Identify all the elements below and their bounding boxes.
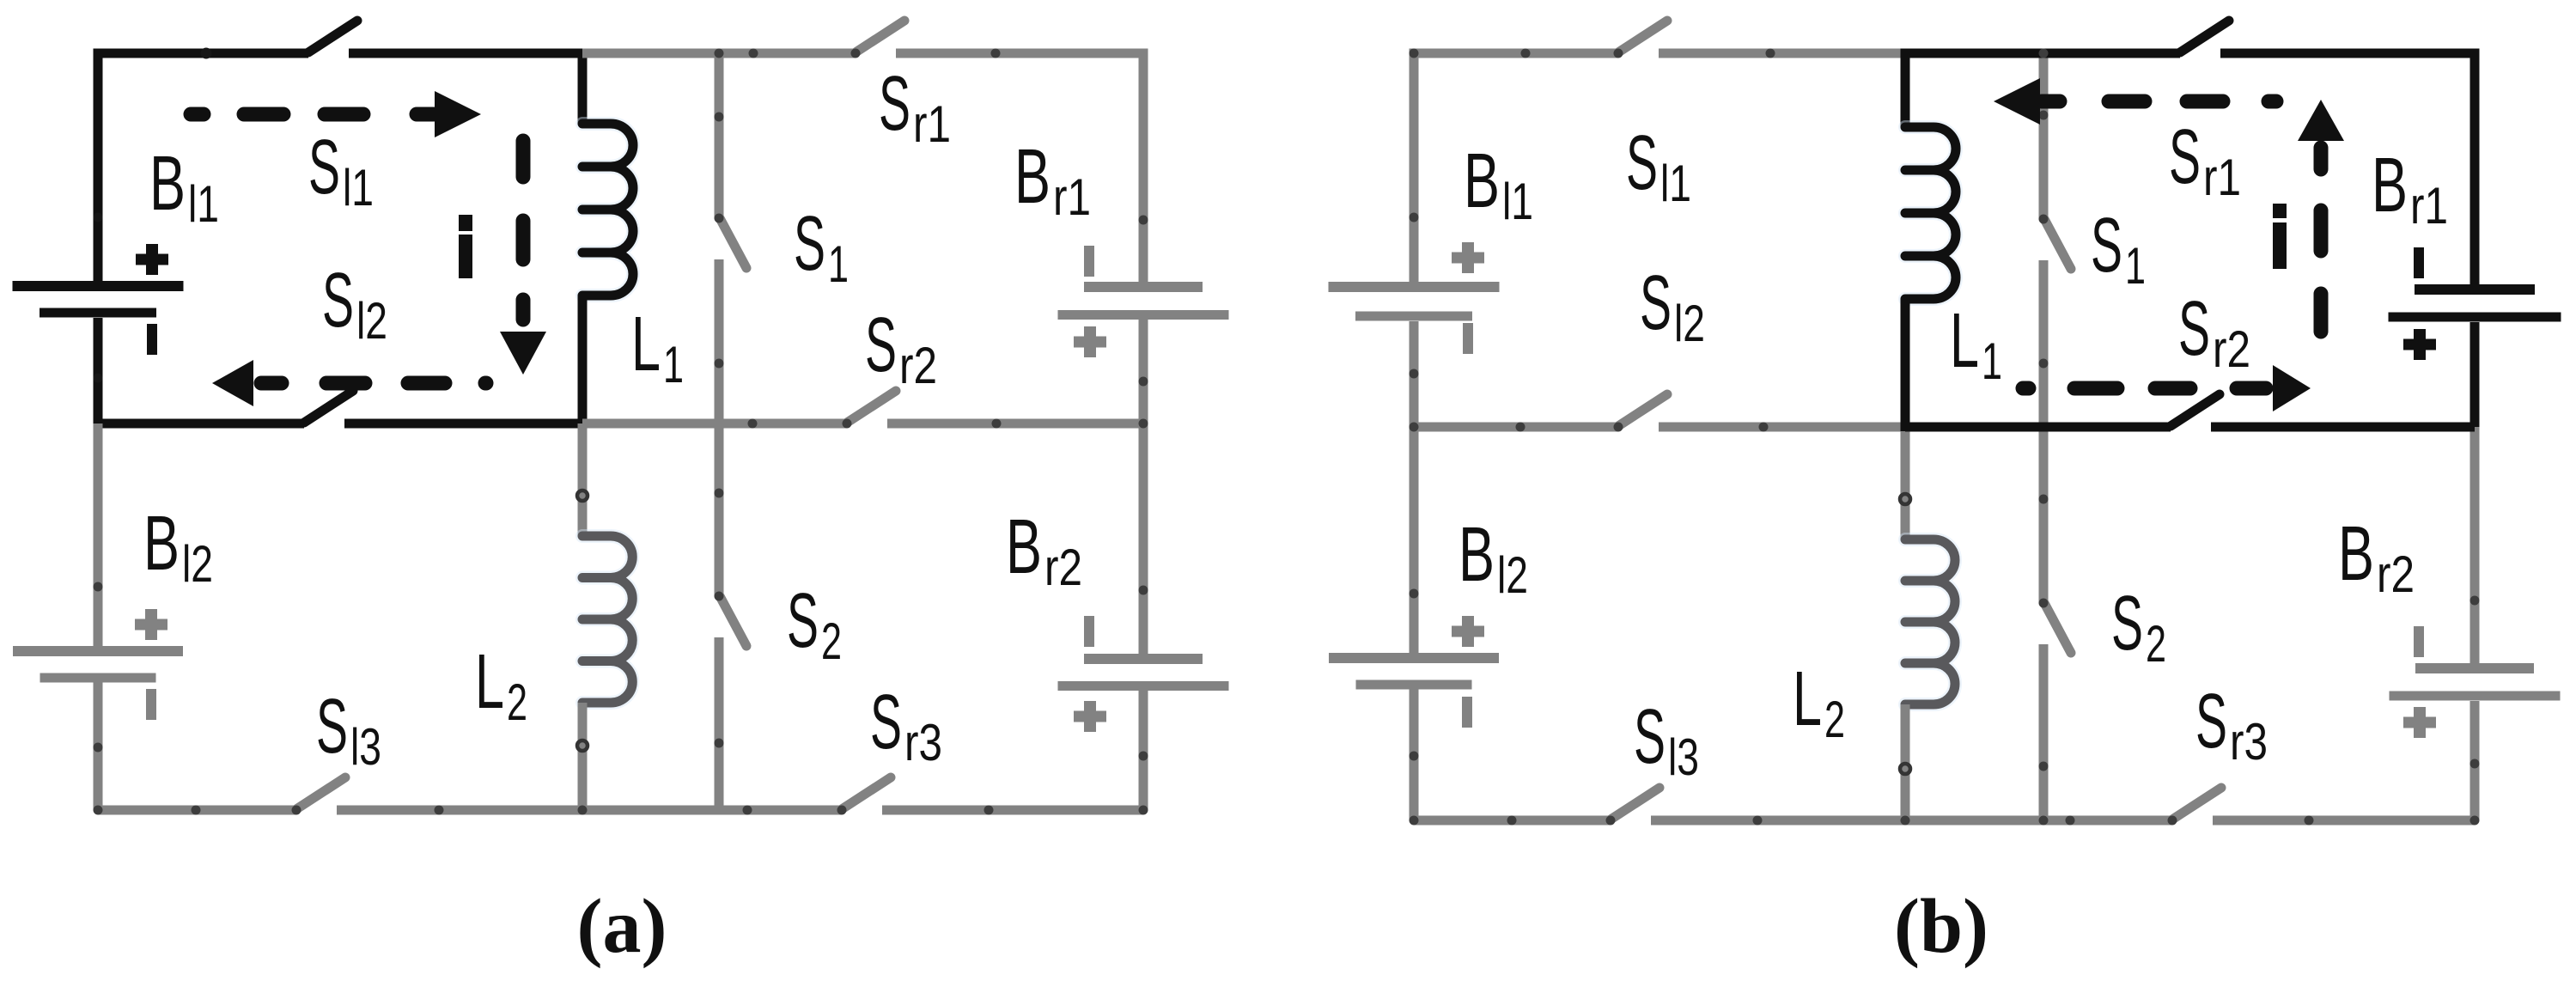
svg-text:l3: l3 (1668, 728, 1699, 786)
wire bottom rail left to S_l3 (gray) (1414, 816, 1611, 826)
node junction (2688,955) (2305, 816, 2314, 826)
svg-text:S: S (1634, 694, 1666, 780)
label S_r1 (879, 61, 951, 153)
node junction (870,943) (743, 806, 752, 815)
wire S2 column lower (gray) (715, 637, 724, 810)
wire bottom rail left to S_l3 (gray) (98, 806, 296, 815)
svg-text:l2: l2 (1497, 546, 1528, 604)
svg-text:r2: r2 (2377, 545, 2415, 603)
node junction (678,943) (578, 806, 588, 815)
node junction (1160,493) (992, 419, 1002, 429)
battery B_r2 (1058, 616, 1229, 732)
switch S_l1 (blade, gray) (1614, 21, 1668, 58)
node junction (2046,955) (1753, 816, 1763, 826)
pin marker L2 bottom (b) (1900, 764, 1910, 774)
node junction (1159,62) (991, 49, 1001, 58)
wire S1 column lower (gray) (715, 259, 724, 423)
svg-text:l1: l1 (343, 159, 374, 216)
node junction (1646,880) (1410, 752, 1419, 761)
label current i (b) (2273, 204, 2287, 269)
current dash top dot (191, 107, 204, 122)
node junction (877,62) (749, 49, 758, 58)
svg-text:1: 1 (2125, 237, 2146, 295)
node junction (1646,497) (1410, 423, 1419, 432)
svg-text:r3: r3 (2230, 713, 2268, 771)
wire mid rail L1 to S_r2 (gray) (582, 419, 847, 429)
svg-text:S: S (870, 679, 902, 765)
wire bottom rail S_r3 to B_r2 (gray) (2213, 816, 2475, 826)
current dash right 2 (2314, 294, 2329, 332)
wire S_l2 to L1 column (gray) (1659, 423, 1905, 432)
svg-text:(b): (b) (1894, 884, 1988, 969)
current dash bottom 2 (326, 376, 365, 391)
svg-text:r1: r1 (1053, 168, 1091, 226)
svg-text:S: S (2111, 581, 2143, 667)
current arrow left (bottom) (212, 360, 282, 406)
wire L2 column upper (gray) (1901, 427, 1910, 539)
wire bottom rail S_l3 to S_r3 (gray) (1651, 816, 2172, 826)
node junction (2218,955) (1901, 816, 1910, 826)
current dash bottom 2 (2155, 381, 2190, 396)
node junction (2379,134) (2039, 111, 2049, 120)
label S_l2 (b) (1640, 260, 1705, 352)
node junction (876,493) (748, 419, 758, 429)
wire B_r2 column upper (gray) (2470, 427, 2480, 663)
pin marker L2 top (577, 490, 588, 501)
label S_r3 (870, 679, 942, 771)
switch S_l1 (closed-drawn blade, black) (308, 21, 357, 52)
current dash bottom 1 (408, 376, 445, 391)
label L_2 (475, 639, 527, 731)
svg-text:2: 2 (821, 612, 842, 670)
node junction (1151,943) (984, 806, 994, 815)
label S_r2 (b) (2178, 286, 2250, 378)
svg-text:r2: r2 (899, 337, 937, 394)
node junction (1646,691) (1410, 589, 1419, 599)
label S_l1 (308, 125, 374, 216)
switch S_l2 (blade, black) (304, 391, 353, 423)
svg-text:L: L (1950, 298, 1979, 384)
svg-text:r2: r2 (2213, 320, 2250, 378)
label S_1 (794, 201, 849, 293)
node junction (837,865) (715, 739, 724, 748)
svg-text:S: S (2169, 114, 2201, 200)
svg-text:l1: l1 (1660, 155, 1691, 212)
battery B_l2 (13, 609, 183, 720)
node junction (1646,253) (1410, 213, 1419, 222)
wire mid rail S_r2 to L1 (black) (1905, 423, 2171, 432)
svg-text:B: B (2372, 143, 2408, 228)
battery B_r1 (b) (2389, 247, 2561, 360)
svg-text:S: S (879, 61, 910, 147)
svg-text:l2: l2 (182, 535, 213, 593)
current arrow up (right) (2298, 100, 2344, 169)
wire bottom rail S_l3 to S_r3 (gray) (337, 806, 842, 815)
wire L2 column upper (gray) (578, 423, 588, 536)
label B_r1 (1014, 134, 1091, 226)
current dash top 2 (2187, 94, 2223, 109)
label B_r2 (1006, 504, 1082, 596)
wire top rail L1 to S_r1 (gray) (582, 49, 856, 58)
svg-text:2: 2 (2146, 615, 2166, 673)
inductor L2 (582, 536, 632, 703)
node junction (1646,955) (1410, 816, 1419, 826)
svg-text:S: S (1626, 120, 1658, 206)
switch S_r1 (blade, black) (2180, 21, 2229, 52)
svg-text:B: B (1464, 138, 1500, 224)
label S_2 (787, 578, 842, 670)
node junction (511,943) (435, 806, 444, 815)
current dash top dot (2268, 94, 2276, 109)
svg-text:B: B (149, 141, 186, 227)
node junction (1776,62) (1521, 49, 1531, 58)
label S_l3 (316, 684, 381, 776)
battery B_r2 (b) (2390, 626, 2561, 738)
label S_l3 (b) (1634, 694, 1699, 786)
wire B_l1 to mid rail (gray) (1410, 321, 1419, 427)
inductor L1 (b) (1905, 127, 1956, 299)
svg-text:1: 1 (663, 336, 684, 393)
wire S1 column lower (gray) (2039, 260, 2049, 427)
node junction (240,62) (201, 48, 212, 59)
label S_r2 (865, 302, 937, 394)
node junction (1770,497) (1516, 423, 1526, 432)
svg-text:S: S (2178, 286, 2210, 372)
battery B_l2 (b) (1329, 616, 1499, 728)
svg-text:r3: r3 (904, 714, 942, 771)
label B_l1 (149, 141, 219, 233)
svg-text:S: S (2195, 679, 2227, 765)
node junction (1646,435) (1410, 369, 1419, 379)
wire left column B_l2 lower (gray) (1410, 689, 1419, 820)
switch S_r3 (blade, gray) (2168, 788, 2222, 826)
label L_1 (b) (1950, 298, 2002, 390)
svg-text:S: S (794, 201, 825, 287)
node junction (2379,423) (2039, 359, 2049, 369)
svg-text:B: B (143, 501, 180, 587)
svg-text:B: B (1006, 504, 1042, 590)
current arrow down (right) (500, 300, 546, 375)
wire L2 column lower (gray) (1901, 704, 1910, 820)
svg-text:2: 2 (507, 673, 527, 731)
wire B_r2 column lower (gray) (1139, 691, 1148, 810)
node junction (837,423) (715, 359, 724, 369)
svg-text:B: B (1459, 512, 1495, 598)
current arrow right (bottom) (2237, 365, 2311, 411)
wire mid rail left to S_l2 (gray) (1414, 423, 1618, 432)
label L_1 (631, 302, 684, 393)
label B_l2 (b) (1459, 512, 1528, 604)
label B_r1 (b) (2372, 143, 2448, 235)
wire mid rail B_r1 to S_r2 (black) (2211, 423, 2475, 432)
wire top-left B_l1 to S_l1 (gray) (1414, 53, 1618, 282)
svg-text:r1: r1 (913, 95, 951, 153)
node junction (2379,62) (2039, 49, 2049, 58)
node junction (114,253) (94, 213, 103, 222)
label B_r2 (b) (2338, 511, 2415, 603)
svg-text:S: S (316, 684, 348, 770)
node junction (1331,444) (1139, 377, 1148, 387)
wire L1 bottom lead (black) (578, 296, 588, 428)
svg-text:L: L (631, 302, 661, 387)
wire B_r1 to mid rail (black) (2470, 322, 2480, 427)
svg-text:l2: l2 (1674, 295, 1705, 352)
svg-text:S: S (2091, 203, 2122, 289)
current arrow left (top) (1994, 78, 2060, 125)
svg-text:(a): (a) (577, 884, 667, 969)
battery B_l1 (b) (1329, 242, 1500, 354)
wire B_r1 + to mid rail (gray) (1139, 320, 1148, 423)
node junction (2379,581) (2039, 495, 2049, 504)
wire L2 column lower (gray) (578, 703, 588, 810)
wire B_l1 - to mid rail (black) (98, 318, 304, 423)
label S_l1 (b) (1626, 120, 1691, 212)
svg-text:2: 2 (1824, 691, 1845, 748)
switch S_r2 (blade, gray) (843, 391, 897, 429)
node junction (2379,892) (2039, 762, 2049, 771)
wire B_r2 column lower (gray) (2470, 701, 2480, 820)
current dash bottom dot (2023, 381, 2029, 396)
wire left column B_l2 lower (gray) (94, 682, 103, 810)
svg-text:S: S (865, 302, 897, 388)
svg-text:B: B (1014, 134, 1050, 220)
svg-text:B: B (2338, 511, 2374, 597)
switch S2 (blade, gray) (2039, 599, 2072, 654)
svg-text:S: S (1640, 260, 1672, 346)
node junction (1760,955) (1507, 816, 1517, 826)
wire S2 column upper (gray) (2039, 427, 2049, 603)
node junction (114,440) (94, 374, 103, 383)
svg-text:r1: r1 (2410, 177, 2448, 235)
label B_l1 (b) (1464, 138, 1533, 230)
node junction (837,62) (715, 49, 724, 58)
switch S1 (blade, gray) (2039, 215, 2072, 270)
switch S2 (blade, gray) (715, 592, 747, 647)
node junction (1331,880) (1139, 752, 1148, 761)
current dash top 1 (2109, 94, 2145, 109)
label S_r3 (b) (2195, 679, 2268, 771)
wire top rail S_r1 to B_r1 (gray) (896, 53, 1143, 282)
current dash right 2 (516, 221, 531, 259)
current arrow right (top) (417, 91, 481, 137)
wire S2 column upper (gray) (715, 423, 724, 596)
node junction (114,870) (94, 743, 103, 753)
node junction (837,136) (715, 113, 724, 122)
svg-text:1: 1 (1982, 332, 2002, 390)
svg-text:r2: r2 (1044, 539, 1082, 596)
svg-text:S: S (322, 258, 354, 344)
node junction (114,943) (94, 806, 103, 815)
current dash bottom 1 (2074, 381, 2117, 396)
wire L1 bottom lead (black) (1901, 299, 1910, 431)
current dash top 2 (325, 107, 363, 122)
pin marker L2 top (b) (1900, 494, 1910, 504)
current dash top 1 (244, 107, 283, 122)
label L_2 (b) (1793, 656, 1845, 748)
wire left column B_l2 upper (gray) (1410, 427, 1419, 653)
node junction (2881,955) (2470, 816, 2480, 826)
node junction (1331,943) (1139, 806, 1148, 815)
svg-text:L: L (475, 639, 504, 725)
node junction (2410,955) (2066, 816, 2075, 826)
node junction (2881,699) (2470, 596, 2480, 606)
switch S1 (blade, gray) (715, 214, 747, 269)
svg-text:r1: r1 (2203, 149, 2241, 206)
battery B_r1 (1058, 246, 1229, 357)
wire S2 column lower (gray) (2039, 644, 2049, 820)
wire S1 column upper (gray) (715, 53, 724, 218)
switch S_r3 (blade, gray) (837, 777, 892, 815)
wire S1 column upper (gray) (2039, 53, 2049, 219)
switch S_l2 (blade, gray) (1614, 394, 1668, 432)
current dash right 1 (2314, 210, 2329, 251)
wire left column B_l2 upper (gray) (94, 423, 103, 646)
current dash right 1 (516, 141, 531, 177)
node junction (2379,955) (2039, 816, 2049, 826)
wire top-left: B_l1 + to S_l1 (black) (98, 53, 308, 281)
wire S_l2 to L1 bottom (black) (344, 419, 582, 429)
current dash bottom dot (485, 376, 486, 391)
label S_1 (b) (2091, 203, 2146, 295)
svg-text:l2: l2 (356, 292, 387, 350)
switch S_r1 (blade, gray) (851, 21, 905, 58)
node junction (1331,256) (1139, 216, 1148, 225)
node junction (1646,62) (1410, 49, 1419, 58)
inductor L2 (b) (1905, 539, 1955, 704)
node junction (2053,497) (1759, 423, 1769, 432)
node junction (228,943) (192, 806, 201, 815)
switch S_r2 (blade, black) (2171, 394, 2220, 426)
svg-text:L: L (1793, 656, 1822, 742)
switch S_l3 (blade, gray) (292, 777, 346, 815)
node junction (1331,687) (1139, 586, 1148, 595)
svg-text:l3: l3 (350, 718, 381, 776)
node junction (2061,62) (1766, 49, 1775, 58)
svg-text:l1: l1 (188, 175, 219, 233)
wire S_l1 to L1 top corner (black) (349, 53, 582, 124)
wire S_r1 to B_r1 (black) (2220, 53, 2475, 284)
label B_l2 (143, 501, 213, 593)
svg-text:1: 1 (828, 235, 849, 293)
label S_r1 (b) (2169, 114, 2241, 206)
label S_2 (b) (2111, 581, 2166, 673)
wire mid rail S_r2 to B_r1 (gray) (887, 419, 1143, 429)
svg-text:l1: l1 (1502, 173, 1533, 230)
battery B_l1 (13, 244, 184, 355)
wire B_r2 column upper (gray) (1139, 423, 1148, 654)
svg-text:S: S (308, 125, 340, 210)
label S_l2 (322, 258, 387, 350)
node junction (1331,493) (1139, 419, 1148, 429)
pin marker L2 bottom (577, 740, 588, 751)
wire bottom rail S_r3 to B_r2 (gray) (882, 806, 1143, 815)
inductor L1 (582, 124, 633, 296)
wire top rail L1 to S_r1 (black) (1905, 53, 2180, 127)
node junction (114,683) (94, 582, 103, 592)
node junction (2881,889) (2470, 759, 2480, 769)
wire S_l1 to L1 corner (gray) (1659, 49, 1905, 58)
label current i (459, 215, 472, 278)
switch S_l3 (blade, gray) (1606, 788, 1660, 826)
svg-text:S: S (787, 578, 819, 664)
node junction (837,574) (715, 489, 724, 498)
